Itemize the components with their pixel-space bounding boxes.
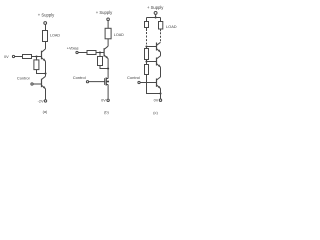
- transistor Q2a collector: [42, 76, 46, 79]
- emitter arrow Q2a: [43, 86, 45, 89]
- mosfet Q2b source stub: [106, 84, 108, 86]
- supply terminal c: [154, 11, 157, 14]
- Vbias terminal b: [76, 51, 78, 53]
- wire node A to R2c: [146, 47, 148, 49]
- transistor Q2a emitter: [42, 85, 46, 89]
- wire control to gate b: [89, 81, 105, 83]
- svg-text:+ Supply: + Supply: [147, 5, 164, 10]
- transistor Q1c emitter: [157, 49, 161, 53]
- svg-text:Control: Control: [17, 76, 30, 81]
- transistor Q2c emitter: [157, 64, 161, 68]
- wire control to base Q3c: [140, 82, 156, 84]
- wire R2a to emitter node a: [37, 70, 46, 74]
- wire Q2a emitter down a: [45, 89, 47, 100]
- wire load to Q1a collector: [45, 42, 47, 49]
- wire node A to base Q1c: [147, 46, 157, 48]
- wire node to R2b: [99, 53, 101, 57]
- load R c: [159, 22, 163, 30]
- wire Q3c emitter down c: [160, 89, 162, 99]
- wire node to R2a: [36, 57, 38, 61]
- dashed load wire c: [160, 32, 162, 42]
- emitter arrow Q1a: [43, 59, 45, 62]
- mosfet Q2b drain stub: [106, 78, 108, 80]
- transistor Q1c collector: [157, 42, 161, 45]
- svg-text:LOAD: LOAD: [50, 34, 60, 38]
- svg-text:0V: 0V: [154, 99, 159, 103]
- node bulk b: [107, 81, 109, 83]
- wire R2b to emitter node b: [100, 66, 108, 69]
- transistor Q1c base bar: [156, 43, 158, 51]
- wire load to Q1b collector: [107, 39, 109, 46]
- svg-text:LOAD: LOAD: [114, 33, 124, 37]
- emitter arrow Q2c: [158, 65, 160, 68]
- control terminal b: [86, 81, 88, 83]
- wire Q1c emitter to Q2c collector: [160, 52, 162, 56]
- mosfet Q2b gate bar: [104, 78, 106, 85]
- transistor Q2c collector: [157, 56, 161, 59]
- svg-text:Control: Control: [73, 75, 86, 80]
- emitter arrow Q1c: [158, 50, 160, 53]
- transistor Q1a collector: [42, 49, 46, 52]
- node base b: [99, 51, 101, 53]
- wire supply to load a: [45, 24, 47, 30]
- svg-text:Control: Control: [127, 75, 140, 80]
- svg-text:+ Supply: + Supply: [38, 12, 55, 17]
- 0V terminal b: [107, 99, 109, 101]
- svg-text:-2V: -2V: [38, 99, 44, 103]
- svg-text:+ Supply: + Supply: [96, 10, 113, 15]
- wire 0V to R1a: [15, 56, 23, 58]
- resistor R2c: [145, 49, 149, 60]
- resistor R2b: [98, 57, 103, 66]
- transistor Q2a base bar: [41, 79, 43, 88]
- wire Q1b emitter to mosfet drain: [107, 59, 109, 79]
- node A c: [145, 45, 147, 47]
- node B c: [145, 60, 147, 62]
- wire node B to base Q2c: [147, 61, 157, 63]
- transistor Q1a emitter: [42, 58, 46, 62]
- transistor Q3c collector: [157, 77, 161, 80]
- load R b: [105, 28, 111, 39]
- transistor Q1a base bar: [41, 51, 43, 60]
- transistor Q2c base bar: [156, 58, 158, 66]
- transistor Q1b emitter: [104, 55, 108, 59]
- 0V terminal a: [12, 55, 14, 57]
- wire R1c stem c: [146, 28, 148, 32]
- svg-text:(a): (a): [43, 110, 48, 114]
- resistor R1a: [23, 55, 32, 59]
- supply terminal b: [107, 18, 110, 21]
- control terminal a: [31, 83, 33, 85]
- svg-text:(c): (c): [153, 111, 158, 115]
- 0V terminal c: [159, 99, 161, 101]
- resistor R2a: [34, 60, 39, 70]
- emitter arrow Q3c: [158, 86, 160, 89]
- wire R2c to node B: [146, 60, 148, 62]
- mosfet bulk arrow: [106, 81, 107, 82]
- wire rail to load c: [160, 18, 162, 22]
- wire R1a to base Q1a: [32, 56, 42, 58]
- wire rail to R1c: [146, 18, 148, 22]
- resistor R1c: [145, 22, 149, 28]
- load R a: [43, 31, 48, 42]
- mosfet Q2b channel bar: [105, 78, 107, 86]
- svg-text:+Vbias: +Vbias: [67, 46, 79, 50]
- mosfet Q2b bulk stub: [106, 81, 108, 83]
- svg-text:0V: 0V: [4, 55, 9, 59]
- wire supply stem c: [155, 14, 157, 17]
- svg-text:(b): (b): [104, 110, 109, 114]
- control terminal c: [138, 81, 140, 83]
- wire mosfet source down b: [107, 85, 109, 99]
- resistor R3c: [145, 65, 149, 75]
- wire control to base Q2a: [33, 83, 41, 85]
- transistor Q3c emitter: [157, 85, 161, 89]
- transistor Q1b base bar: [103, 48, 105, 56]
- wire Vbias to R1b: [78, 52, 87, 54]
- node supply c: [155, 16, 157, 18]
- transistor Q1b collector: [104, 46, 108, 49]
- wire Q2c emitter to Q3c collector: [160, 67, 162, 77]
- node emitter a: [44, 72, 46, 74]
- node base a: [35, 55, 37, 57]
- -2V terminal a: [44, 100, 46, 102]
- wire R3c to emitter rail c: [147, 75, 161, 94]
- svg-text:0V: 0V: [101, 98, 106, 102]
- svg-text:LOAD: LOAD: [166, 24, 177, 29]
- dashed chain wire c: [146, 32, 148, 44]
- resistor R1b: [87, 51, 96, 55]
- node emitter c: [159, 92, 161, 94]
- transistor Q3c base bar: [156, 79, 158, 87]
- wire R1b to base Q1b: [96, 52, 104, 54]
- wire supply to load b: [107, 21, 109, 29]
- wire node B to R3c: [146, 62, 148, 65]
- supply terminal a: [44, 22, 47, 25]
- emitter arrow Q1b: [106, 56, 108, 59]
- wire Q1a emitter to Q2a collector: [45, 61, 47, 76]
- node emitter b: [107, 67, 109, 69]
- wire load stem c: [160, 29, 162, 31]
- wire supply rail c: [147, 17, 161, 19]
